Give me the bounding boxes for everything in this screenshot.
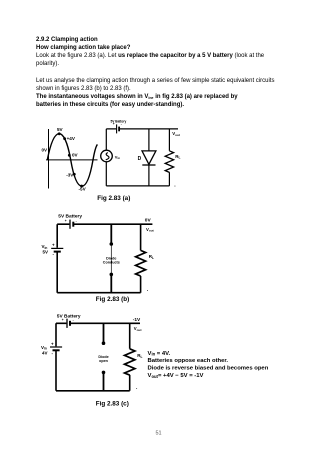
svg-text:0V: 0V (72, 153, 79, 158)
svg-text:Fig 2.83 (b): Fig 2.83 (b) (96, 296, 129, 303)
svg-text:+: + (52, 243, 55, 248)
svg-text:4V: 4V (42, 350, 48, 355)
svg-text:+: + (51, 342, 54, 347)
svg-text:0V: 0V (145, 218, 152, 224)
svg-text:+4V: +4V (67, 136, 76, 141)
svg-text:RL: RL (175, 154, 180, 160)
svg-text:Vout: Vout (134, 326, 142, 332)
svg-text:Vin: Vin (115, 155, 120, 161)
svg-text:.: . (147, 287, 149, 293)
svg-text:Vout: Vout (146, 227, 154, 233)
svg-text:-: - (52, 351, 54, 356)
svg-text:Diode is reverse biased and be: Diode is reverse biased and becomes open (148, 366, 269, 372)
svg-text:Fig 2.83 (a): Fig 2.83 (a) (97, 195, 130, 202)
svg-text:Vin = 4V.: Vin = 4V. (148, 351, 171, 357)
svg-text:Diode: Diode (106, 256, 116, 260)
svg-text:+: + (113, 122, 115, 126)
svg-text:5V Battery: 5V Battery (57, 314, 81, 320)
svg-text:-: - (76, 219, 77, 223)
svg-text:-: - (121, 122, 122, 126)
svg-text:RL: RL (149, 254, 154, 260)
svg-text:Batteries oppose each other.: Batteries oppose each other. (148, 358, 229, 364)
svg-text:.: . (174, 183, 176, 189)
svg-text:+: + (65, 219, 67, 223)
svg-text:5V Battery: 5V Battery (58, 214, 82, 220)
svg-text:51: 51 (156, 431, 162, 437)
svg-text:5V: 5V (57, 127, 64, 132)
svg-text:Fig 2.83 (c): Fig 2.83 (c) (96, 400, 129, 407)
svg-text:-1V: -1V (133, 317, 141, 323)
svg-text:-3V: -3V (66, 172, 74, 177)
svg-text:.: . (136, 385, 138, 391)
svg-text:RL: RL (137, 353, 142, 359)
svg-text:+: + (62, 318, 64, 322)
svg-text:0V: 0V (42, 147, 49, 152)
svg-text:Vout: Vout (172, 131, 180, 137)
svg-text:Conducts: Conducts (103, 261, 120, 265)
svg-text:-5V: -5V (79, 186, 87, 191)
svg-text:D: D (138, 156, 142, 162)
svg-text:5V: 5V (43, 250, 49, 255)
svg-text:-: - (73, 318, 74, 322)
svg-text:Vout= +4V − 5V = -1V: Vout= +4V − 5V = -1V (148, 373, 204, 379)
svg-text:open: open (99, 359, 109, 363)
